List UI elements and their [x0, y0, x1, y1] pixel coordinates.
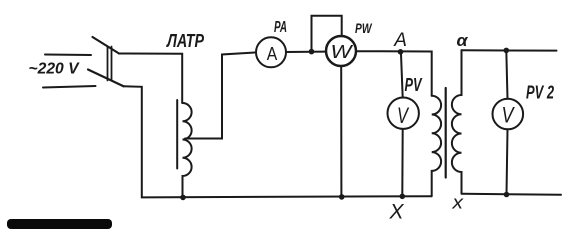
svg-text:α: α	[457, 31, 470, 50]
svg-text:A: A	[393, 30, 407, 51]
wire plug to LATR top	[119, 54, 182, 104]
svg-text:ЛАТР: ЛАТР	[165, 31, 204, 51]
ammeter PA circle	[256, 37, 286, 67]
junction wattmeter voltage tap	[309, 49, 315, 55]
wire plug bottom to bottom rail	[124, 86, 142, 197]
wire wattmeter current return	[340, 66, 342, 197]
transformer T2 primary winding	[432, 96, 441, 197]
junction node A	[398, 49, 404, 55]
wire wattmeter to node A	[356, 51, 432, 95]
wire 220V top lead	[45, 54, 91, 57]
svg-text:PA: PA	[274, 19, 287, 36]
wire bottom rail right section	[462, 194, 561, 195]
svg-text:V: V	[397, 103, 410, 128]
wire 220V bottom lead	[43, 86, 96, 88]
svg-text:PV 2: PV 2	[526, 82, 554, 102]
junction voltmeter PV2 bottom	[504, 192, 510, 198]
wire wattmeter voltage coil bracket	[312, 16, 342, 52]
svg-text:W: W	[331, 42, 354, 62]
plug connector XP1 bottom prong	[88, 70, 124, 87]
junction node X	[400, 194, 406, 200]
scan artifact bar	[7, 219, 112, 229]
voltmeter PV2 circle	[493, 99, 524, 130]
plug connector XP1 top prong	[93, 37, 120, 54]
voltmeter PV circle	[388, 98, 419, 129]
wire top rail right section	[462, 49, 557, 51]
plug connector XP1 socket bars	[108, 47, 112, 81]
svg-text:PV: PV	[405, 75, 423, 95]
svg-text:A: A	[267, 44, 278, 64]
svg-text:PW: PW	[355, 20, 373, 36]
svg-text:X: X	[389, 201, 405, 224]
wattmeter PW circle	[326, 36, 356, 66]
svg-text:~220 V: ~220 V	[29, 61, 81, 78]
transformer T2 core	[445, 88, 447, 178]
svg-text:V: V	[502, 102, 516, 127]
junction LATR bottom	[180, 195, 186, 201]
junction voltmeter PV2 top	[504, 48, 510, 54]
wire node A to voltmeter PV	[401, 54, 403, 98]
junction wattmeter bottom	[339, 194, 345, 200]
wire bottom rail left section	[142, 196, 432, 197]
wire top rail to voltmeter PV2	[506, 50, 507, 98]
wire voltmeter PV2 to bottom rail	[507, 129, 508, 194]
svg-text:x: x	[451, 193, 464, 213]
wire ammeter to wattmeter	[286, 51, 326, 53]
wire LATR tap to ammeter	[185, 52, 256, 138]
autotransformer T1 winding	[183, 103, 192, 197]
autotransformer T1 core bar	[176, 100, 178, 169]
transformer T2 secondary winding	[452, 50, 462, 194]
wire voltmeter PV to node X	[401, 129, 403, 196]
